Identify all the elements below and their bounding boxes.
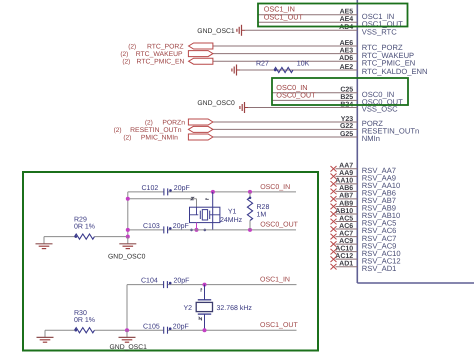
- svg-text:AC5: AC5: [339, 215, 353, 222]
- svg-text:AC7: AC7: [339, 230, 353, 237]
- svg-text:C102: C102: [142, 185, 159, 192]
- svg-text:AD4: AD4: [339, 24, 353, 31]
- svg-text:OSC0_OUT: OSC0_OUT: [276, 91, 316, 100]
- svg-text:OSC1_OUT: OSC1_OUT: [264, 13, 304, 22]
- svg-text:Y1: Y1: [228, 208, 237, 215]
- svg-text:AD6: AD6: [339, 55, 353, 62]
- svg-text:GND_OSC1: GND_OSC1: [110, 344, 148, 351]
- svg-text:B25: B25: [340, 94, 353, 101]
- svg-text:AC9: AC9: [339, 238, 353, 245]
- svg-text:AC12: AC12: [335, 253, 353, 260]
- svg-text:R27: R27: [256, 60, 269, 67]
- svg-text:(2): (2): [122, 59, 130, 66]
- svg-text:RSV_AD1: RSV_AD1: [362, 264, 397, 273]
- svg-text:AC10: AC10: [335, 245, 353, 252]
- svg-text:AA7: AA7: [339, 163, 353, 170]
- svg-text:Y23: Y23: [341, 116, 354, 123]
- svg-text:(2): (2): [114, 127, 122, 134]
- svg-text:GND_OSC0: GND_OSC0: [197, 100, 235, 107]
- svg-text:AB10: AB10: [335, 208, 353, 215]
- svg-text:VSS_OSC: VSS_OSC: [362, 105, 398, 114]
- svg-text:20pF: 20pF: [173, 323, 189, 330]
- svg-text:0R 1%: 0R 1%: [74, 317, 95, 324]
- svg-text:Y2: Y2: [184, 305, 193, 312]
- svg-text:C25: C25: [340, 87, 353, 94]
- svg-text:PMIC_NMIn: PMIC_NMIn: [141, 135, 178, 142]
- svg-text:(2): (2): [120, 51, 128, 58]
- svg-text:R30: R30: [74, 310, 87, 317]
- svg-text:R28: R28: [257, 204, 270, 211]
- svg-text:20pF: 20pF: [174, 278, 190, 285]
- svg-text:AE4: AE4: [340, 16, 354, 23]
- svg-text:AB7: AB7: [339, 193, 353, 200]
- svg-text:0R 1%: 0R 1%: [74, 224, 95, 231]
- svg-text:AE5: AE5: [340, 9, 354, 16]
- svg-text:1M: 1M: [257, 212, 267, 219]
- svg-text:RTC_PORZ: RTC_PORZ: [147, 44, 184, 51]
- svg-text:AC6: AC6: [339, 223, 353, 230]
- svg-text:C105: C105: [143, 323, 160, 330]
- svg-text:NMIn: NMIn: [362, 134, 380, 143]
- svg-text:OSC0_OUT: OSC0_OUT: [260, 221, 298, 228]
- svg-text:AE6: AE6: [340, 40, 354, 47]
- svg-text:RTC_KALDO_ENN: RTC_KALDO_ENN: [362, 67, 428, 76]
- svg-text:PORZn: PORZn: [162, 120, 185, 127]
- svg-text:32.768 kHz: 32.768 kHz: [217, 304, 253, 312]
- svg-text:AD1: AD1: [339, 260, 353, 267]
- svg-text:AA9: AA9: [339, 170, 353, 177]
- svg-text:AE2: AE2: [340, 64, 354, 71]
- svg-text:24MHz: 24MHz: [220, 217, 243, 224]
- svg-text:AA10: AA10: [335, 178, 353, 185]
- svg-text:(2): (2): [145, 120, 153, 127]
- svg-text:RTC_PMIC_EN: RTC_PMIC_EN: [362, 58, 415, 67]
- svg-text:OSC1_OUT: OSC1_OUT: [260, 322, 298, 329]
- svg-text:(2): (2): [128, 44, 136, 51]
- svg-text:AE3: AE3: [340, 47, 354, 54]
- svg-text:OSC1_IN: OSC1_IN: [260, 277, 290, 284]
- svg-text:OSC0_IN: OSC0_IN: [260, 184, 290, 191]
- svg-text:G25: G25: [340, 131, 353, 138]
- svg-text:20pF: 20pF: [174, 185, 190, 192]
- svg-text:(2): (2): [123, 135, 131, 142]
- svg-text:C104: C104: [141, 278, 158, 285]
- svg-text:10K: 10K: [297, 60, 310, 67]
- svg-text:GND_OSC0: GND_OSC0: [108, 254, 146, 261]
- svg-text:AB6: AB6: [339, 185, 353, 192]
- svg-text:RTC_WAKEUP: RTC_WAKEUP: [136, 51, 183, 58]
- svg-text:20pF: 20pF: [173, 223, 189, 230]
- svg-text:AB9: AB9: [339, 200, 353, 207]
- svg-text:RTC_PMIC_EN: RTC_PMIC_EN: [137, 59, 185, 66]
- svg-text:R29: R29: [74, 217, 87, 224]
- svg-text:RESETIN_OUTn: RESETIN_OUTn: [130, 127, 182, 134]
- svg-text:G22: G22: [340, 123, 353, 130]
- svg-text:C103: C103: [143, 223, 160, 230]
- svg-text:GND_OSC1: GND_OSC1: [197, 28, 235, 35]
- svg-text:VSS_RTC: VSS_RTC: [362, 28, 397, 37]
